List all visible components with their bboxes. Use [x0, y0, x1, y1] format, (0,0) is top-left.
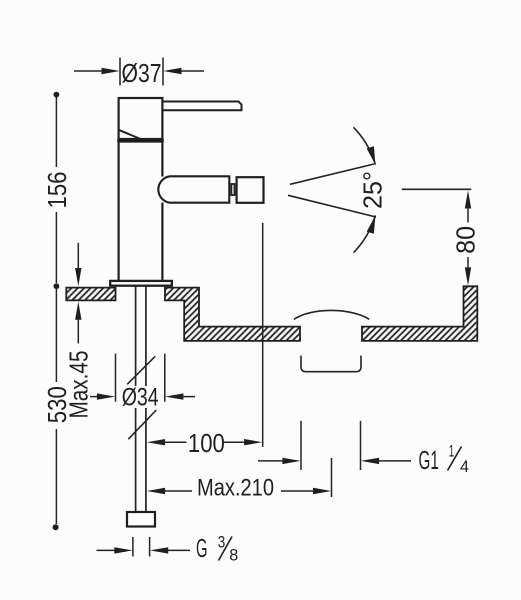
- dim G1 1/4 arrow left: [258, 458, 301, 464]
- dim 100 arrow left: [147, 439, 187, 445]
- supply hose right line upper: [145, 287, 147, 387]
- dim 156 line lower: [55, 212, 57, 283]
- svg-text:25°: 25°: [358, 171, 388, 209]
- svg-text:8: 8: [229, 547, 238, 565]
- countertop section left: [66, 288, 115, 301]
- dim G3/8 arrow left: [97, 547, 133, 553]
- dim G1 1/4 arrow right: [361, 458, 411, 464]
- head-body seam: [117, 139, 164, 142]
- dim Max.210 extension line (drain axis): [331, 458, 333, 497]
- dim Max.210 arrow right: [281, 488, 331, 495]
- countertop section right with rim: [362, 286, 477, 341]
- dim 100 extension line (aerator): [262, 223, 264, 447]
- svg-text:G: G: [196, 533, 208, 563]
- supply hose left line lower: [135, 408, 137, 512]
- dim Max.45 arrow up: [75, 302, 81, 320]
- dim Ø37 tick left: [119, 58, 121, 86]
- dim 530 line lower: [55, 429, 57, 524]
- lever base diagonal: [119, 130, 141, 139]
- basin bottom curve: [294, 310, 369, 319]
- dim Max.45 arrow down: [75, 268, 81, 286]
- faucet head block: [119, 98, 163, 139]
- angle arc lower: [354, 215, 376, 252]
- hose break slash lower: [128, 410, 156, 439]
- dim Ø34 tick left: [115, 354, 117, 402]
- dim Max.210 arrow left: [147, 488, 192, 495]
- dim 530 line: [55, 289, 57, 382]
- svg-text:Ø37: Ø37: [122, 58, 162, 88]
- spout tube: [158, 176, 229, 202]
- dim 80 arrow down: [465, 257, 471, 286]
- svg-text:Max.210: Max.210: [197, 475, 274, 502]
- inlet nut: [127, 512, 155, 527]
- body column right edge lower: [161, 203, 163, 281]
- faucet handle lever bar: [163, 102, 242, 111]
- supply hose left line upper: [135, 287, 137, 387]
- dim Ø37 arrow left: [74, 68, 120, 75]
- svg-text:Ø34: Ø34: [122, 383, 159, 411]
- aerator block: [237, 177, 264, 203]
- svg-text:G1: G1: [419, 445, 439, 475]
- base flange: [110, 281, 172, 286]
- hose break slash upper: [127, 356, 155, 384]
- dim 100 arrow right: [224, 439, 263, 445]
- countertop section middle with step: [165, 288, 300, 341]
- dim 80 arrow up: [465, 190, 471, 222]
- dim 530 bottom dot: [53, 524, 59, 530]
- dim Ø34 arrow left: [90, 393, 115, 399]
- dim Ø37 arrow right: [163, 68, 204, 75]
- dim G1 1/4 extension left: [300, 421, 302, 470]
- spray cone upper line: [290, 164, 374, 184]
- dim 156 line: [55, 97, 57, 167]
- svg-text:Max.45: Max.45: [64, 351, 94, 419]
- dim Ø34 arrow right: [165, 393, 195, 399]
- dim G1 1/4 extension right: [360, 421, 362, 470]
- drain outline: [301, 356, 361, 372]
- dim G3/8 arrow right: [150, 547, 190, 553]
- svg-text:1: 1: [449, 443, 455, 461]
- dim G3/8 tick left: [132, 537, 134, 557]
- svg-text:100: 100: [188, 428, 225, 458]
- spout neck ring: [231, 184, 234, 195]
- label G1 1/4: [419, 443, 470, 476]
- body column left edge: [117, 139, 119, 281]
- spray cone lower line: [288, 195, 376, 217]
- 80 reference line: [402, 188, 472, 190]
- svg-text:4: 4: [460, 458, 469, 476]
- label G 3/8: [196, 533, 238, 565]
- svg-text:156: 156: [42, 172, 72, 209]
- dim 156/530 middle dot: [54, 283, 60, 289]
- svg-text:80: 80: [450, 226, 480, 254]
- body column right edge upper: [161, 139, 163, 177]
- dim 156/530 top dot: [54, 92, 60, 98]
- dim G3/8 tick right: [149, 537, 151, 557]
- dim Max.45 upper line: [77, 243, 79, 270]
- dim Ø37 tick right: [162, 58, 164, 86]
- dim Max.45 lower line: [77, 318, 79, 343]
- dim Ø34 tick right: [164, 354, 166, 402]
- angle arc upper: [354, 127, 376, 164]
- supply hose right line lower: [145, 408, 147, 512]
